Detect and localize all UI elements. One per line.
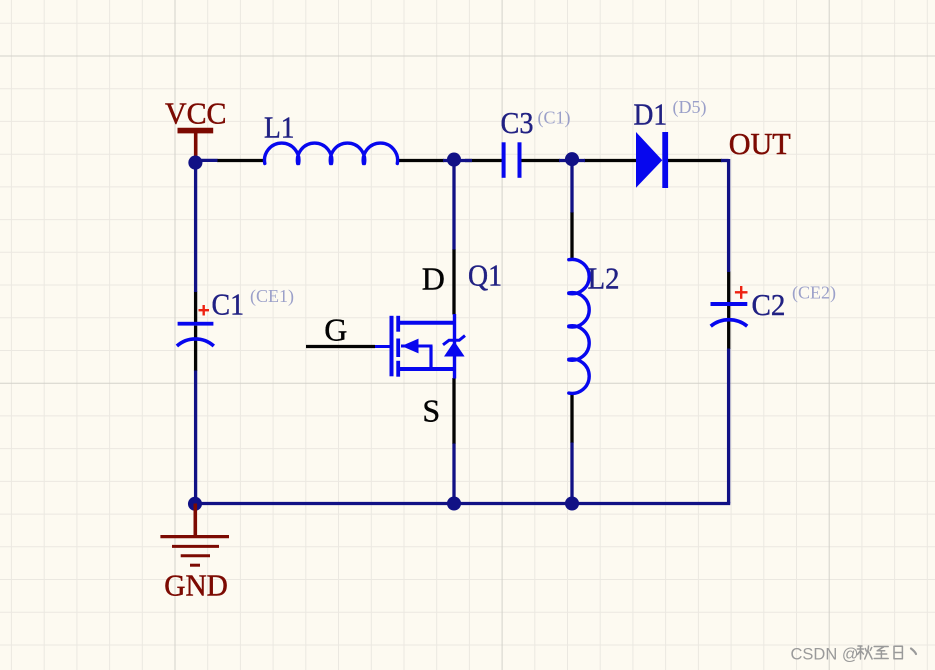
- svg-text:(CE1): (CE1): [250, 286, 294, 307]
- svg-text:(CE2): (CE2): [792, 283, 836, 304]
- svg-text:(C1): (C1): [538, 108, 571, 129]
- svg-text:C3: C3: [501, 105, 534, 140]
- svg-text:OUT: OUT: [729, 126, 791, 161]
- svg-text:G: G: [324, 312, 347, 348]
- svg-text:L2: L2: [588, 260, 620, 295]
- svg-text:C1: C1: [212, 286, 245, 321]
- svg-text:(D5): (D5): [673, 97, 707, 118]
- svg-text:D: D: [422, 261, 445, 297]
- svg-text:D1: D1: [634, 96, 668, 131]
- svg-text:GND: GND: [164, 568, 228, 603]
- svg-text:CSDN @: CSDN @: [791, 646, 859, 664]
- svg-text:VCC: VCC: [165, 96, 227, 131]
- svg-text:S: S: [422, 393, 440, 429]
- svg-text:C2: C2: [752, 287, 786, 322]
- svg-text:Q1: Q1: [468, 258, 502, 293]
- svg-text:L1: L1: [264, 109, 295, 144]
